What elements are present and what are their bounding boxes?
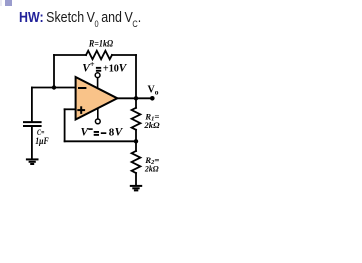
svg-text:R=1kΩ: R=1kΩ (88, 39, 113, 50)
decorative slide bullet square (0, 0, 2, 6)
wire: R2 to ground (135, 173, 137, 185)
op-amp minus input symbol (78, 87, 86, 89)
op-amp V+ pin terminal circle (95, 73, 100, 78)
svg-text:2kΩ: 2kΩ (144, 163, 159, 173)
wire: feedback left vertical (53, 55, 55, 88)
op-amp V- pin terminal circle (95, 119, 100, 124)
ground (capacitor branch) (26, 159, 39, 164)
capacitor C plates (24, 121, 41, 123)
label V- = -8V (81, 127, 124, 139)
junction dot at inverting input node (52, 85, 56, 89)
op-amp plus input symbol (77, 106, 85, 114)
op-amp V- pin lead (97, 109, 99, 119)
wire: feedback top right segment (112, 54, 136, 56)
svg-text:+: + (90, 59, 95, 69)
svg-text:2kΩ: 2kΩ (143, 120, 160, 130)
label V+ = +10V (82, 59, 127, 75)
svg-text:V: V (81, 127, 90, 139)
svg-text:1μF: 1μF (35, 136, 48, 146)
wire: non-inverting left vertical (64, 109, 66, 141)
wire: op-amp output (117, 97, 152, 99)
wire: R1 to divider node (135, 130, 137, 151)
svg-text:V: V (119, 63, 128, 75)
wire: inverting input (32, 87, 76, 89)
wire: feedback top left segment (54, 54, 86, 56)
resistor R (feedback) zigzag (86, 51, 112, 60)
output terminal dot Vo (150, 96, 155, 101)
resistor R2 zigzag (132, 151, 141, 173)
svg-text:Vo: Vo (148, 85, 159, 97)
op-amp V+ pin lead (97, 78, 99, 88)
wire: feedback right vertical (to output node) (135, 55, 137, 98)
wire: capacitor top lead (31, 88, 33, 122)
junction dot at output node (134, 96, 138, 100)
wire: non-inverting input (65, 108, 76, 110)
op-amp U1 triangle (76, 77, 118, 120)
wire: capacitor bottom lead (31, 127, 33, 159)
svg-text:V: V (115, 127, 124, 139)
svg-text:+10: +10 (103, 63, 119, 75)
resistor R1 zigzag (132, 108, 141, 130)
wire: right rail above R1 (135, 98, 137, 108)
junction dot at divider node (134, 139, 138, 143)
wire: bottom return to divider node (65, 140, 136, 142)
ground (R2 branch) (130, 186, 142, 191)
